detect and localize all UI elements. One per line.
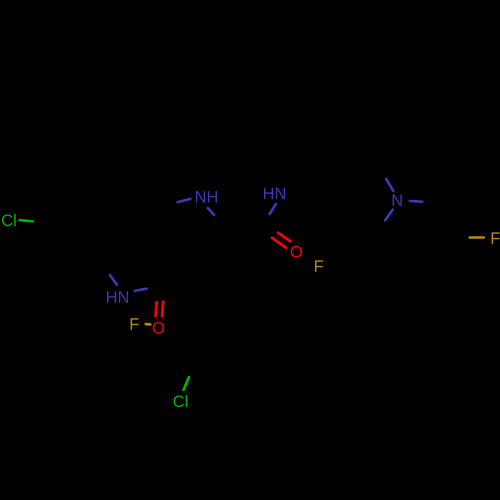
wire: bond amide N2 to carbonyl C (blue half) xyxy=(270,204,276,214)
amide N2-H label xyxy=(264,188,285,199)
oxindole N4-H label xyxy=(107,291,128,302)
piperidine N3 label xyxy=(393,194,402,205)
wire: bond ring C to N3 lower-left (blue half) xyxy=(385,210,393,221)
wire: bond Cl1 to benzo ring C (green half) xyxy=(20,220,33,221)
wire: bond benzo C7a to N4 (blue half) xyxy=(110,275,117,285)
wire: bond aryl ring C to Cl2 (green half) xyxy=(183,377,189,390)
wire: bond chain C to F2, horizontal (gold half) xyxy=(470,236,484,239)
wire: double bond C2p=O2 oxindole, right line (red half) xyxy=(162,302,163,316)
oxygen O2 (oxindole) label xyxy=(153,322,164,334)
wire: bond N3 to chain C, horizontal (blue half) xyxy=(410,200,423,203)
fluorine F3 (oxindole area) label xyxy=(131,318,139,329)
oxygen O1 (amide) label xyxy=(291,246,302,258)
wire: double bond C2p=O2 oxindole, left line (red half) xyxy=(156,302,157,316)
wire: bond N4 to carbonyl C2p (blue half) xyxy=(135,289,147,291)
chlorine Cl2 (bottom) label xyxy=(174,395,188,407)
wire: bond F3 to C, horizontal (gold half) xyxy=(146,323,151,326)
wire: bond pyrrole N1 to C2 (blue half) xyxy=(208,208,214,215)
fluorine F2 (fluoroethyl, far right) label xyxy=(492,232,500,243)
wire: bond ring C to N3 upper-left (blue half) xyxy=(386,179,393,191)
wire: double bond C=O1 amide, outer line (red half) xyxy=(278,233,290,241)
fluorine F1 (on aryl, mid) label xyxy=(315,260,323,271)
wire: double bond C=O1 amide, inner line (red half) xyxy=(272,238,286,248)
pyrrole N1H label xyxy=(196,191,217,202)
chlorine Cl1 (top-left) label xyxy=(2,214,16,226)
wire: bond pyrrole C5 to N1 (blue half) xyxy=(178,199,191,202)
